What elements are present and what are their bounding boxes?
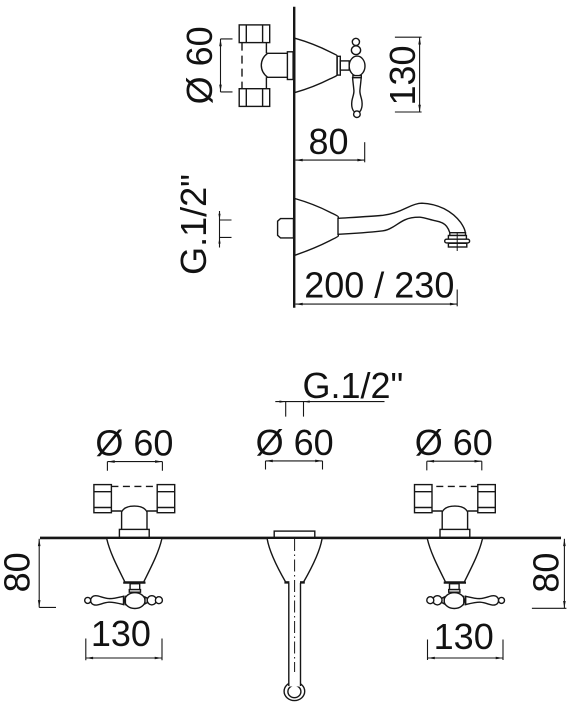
tee right nut	[157, 485, 175, 513]
dimension 80 right: bottom tick	[532, 607, 567, 609]
wall line (front view)	[40, 537, 561, 540]
spout escutcheon (front view)	[267, 539, 322, 582]
svg-text:80: 80	[0, 552, 38, 592]
wall line (side view)	[293, 7, 295, 308]
valve barrel right edge	[265, 43, 267, 89]
handle escutcheon (side view)	[295, 38, 337, 92]
svg-text:G.1/2": G.1/2"	[302, 365, 403, 406]
dimension 80 right: arrows	[563, 539, 566, 609]
dimension G12 front: extension ticks	[286, 402, 304, 417]
dimension D60 right: dimension line	[427, 460, 482, 462]
aerator band 3	[445, 239, 470, 243]
spout escutcheon rim	[284, 581, 304, 583]
dimension 80 side: dimension line	[295, 159, 364, 161]
handle lever (side view)	[352, 78, 362, 112]
svg-text:Ø 60: Ø 60	[256, 422, 334, 463]
spout centerline	[294, 539, 296, 672]
handle flange disc	[337, 56, 340, 75]
handle upper ball	[351, 46, 360, 55]
handle stem	[340, 61, 349, 70]
dimension 130 right: arrows	[428, 657, 504, 660]
lever joint	[124, 596, 126, 606]
svg-text:G.1/2": G.1/2"	[173, 174, 214, 275]
right handle (mirrored)	[427, 539, 505, 608]
valve bottom nut facets	[246, 89, 262, 107]
valve barrel hidden edge (dashed)	[241, 43, 243, 89]
spout end ring outer	[284, 682, 305, 701]
svg-text:80: 80	[308, 121, 348, 162]
dimension 130 right: extension ticks	[428, 640, 504, 661]
tee neck	[122, 506, 147, 529]
dimension 130 left: extension ticks	[86, 639, 162, 661]
valve bottom nut (side view)	[239, 89, 270, 107]
dimension D60 left: arrows	[107, 460, 162, 463]
dimension 80 left: dimension line	[38, 539, 40, 608]
svg-text:200 / 230: 200 / 230	[304, 264, 454, 305]
dimension 130 right: dimension line	[428, 657, 504, 659]
lever (front view)	[91, 596, 124, 605]
svg-text:Ø 60: Ø 60	[415, 422, 493, 463]
dimension 130 left: arrows	[86, 657, 162, 660]
dimension 80 left: arrows	[38, 539, 41, 608]
dimension G12 front: arrows	[280, 401, 310, 403]
dimension 200/230: arrows	[295, 303, 457, 306]
svg-text:130: 130	[382, 45, 423, 105]
handle hub (front view)	[125, 593, 145, 609]
svg-text:Ø 60: Ø 60	[95, 423, 173, 464]
aerator band 4	[448, 243, 466, 247]
handle stem	[130, 584, 140, 590]
tee barrel hidden top edge	[111, 485, 157, 487]
dimension D60 left: extension ticks	[107, 462, 162, 471]
dimension D60 right: extension ticks	[427, 461, 482, 470]
spout end ring inner	[288, 686, 301, 698]
escutcheon (front view)	[107, 539, 162, 582]
tee wall flange	[119, 529, 149, 537]
left handle group	[85, 539, 163, 608]
spout tube mask	[289, 580, 300, 687]
escutcheon rim	[123, 581, 145, 583]
dimension D60 center: dimension line	[266, 460, 323, 462]
dimension D60 right: arrows	[427, 460, 482, 463]
dimension 200/230: dimension line	[295, 303, 457, 305]
dimension D60 side: dimension line	[220, 39, 222, 92]
handle lever tip ball	[354, 111, 361, 118]
dimension G12 front: dimension line	[275, 401, 384, 403]
left valve tee group	[94, 485, 175, 538]
dimension G12 side: dimension line	[219, 211, 221, 248]
dimension 200/230: extension line	[456, 290, 458, 307]
aerator band 1	[450, 233, 466, 236]
dimension 80 left: bottom tick	[39, 606, 56, 608]
tee right nut facets	[157, 492, 175, 508]
handle top ball	[352, 38, 359, 45]
dimension 80 side: extension line	[364, 142, 366, 162]
dimension G12 side: extension lines	[220, 220, 232, 237]
dimension 80 right: dimension line	[563, 539, 565, 609]
dimension D60 left: dimension line	[107, 461, 162, 463]
knob nub	[145, 597, 147, 604]
svg-text:80: 80	[526, 553, 567, 593]
tee left nut facets	[94, 492, 112, 508]
valve outlet cylinder	[266, 53, 287, 77]
tee barrel bottom edge	[111, 510, 157, 512]
dimension G12 side: arrows	[218, 214, 220, 244]
aerator band 2	[448, 236, 466, 240]
valve top nut facets	[246, 25, 262, 43]
lever tip ball	[85, 597, 91, 603]
dimension D60 side: extension lines	[221, 39, 233, 92]
spout tube edges	[289, 583, 301, 686]
dimension 130 side: dimension line	[419, 37, 421, 112]
dimension 80 side: arrows	[295, 159, 364, 162]
dimension 130 side: extension lines	[395, 37, 422, 112]
svg-text:Ø 60: Ø 60	[179, 26, 220, 104]
dimension D60 center: extension ticks	[266, 461, 323, 470]
spout inlet pipe (side view)	[278, 219, 294, 238]
spout escutcheon (side view)	[295, 199, 339, 256]
right valve tee (mirrored)	[415, 485, 496, 538]
valve top nut (side view)	[239, 25, 270, 43]
handle lever collar	[353, 76, 361, 78]
aerator centerline	[456, 233, 458, 251]
svg-text:130: 130	[91, 613, 151, 654]
tee left nut	[94, 485, 112, 513]
spout supply stub (front view)	[274, 531, 315, 538]
valve wall flange	[287, 52, 293, 80]
handle stem collar	[129, 590, 140, 593]
dimension D60 center: arrows	[266, 460, 323, 463]
svg-text:130: 130	[434, 616, 494, 657]
dimension 130 side: arrows	[418, 37, 421, 112]
dimension D60 side: arrows	[219, 39, 222, 92]
spout body (side view)	[338, 203, 465, 234]
knob small ball	[155, 597, 162, 604]
dimension 130 left: dimension line	[86, 657, 162, 659]
knob medium ball	[147, 596, 156, 605]
valve outlet fillet arc	[261, 53, 267, 77]
handle hub (side view)	[349, 56, 365, 76]
